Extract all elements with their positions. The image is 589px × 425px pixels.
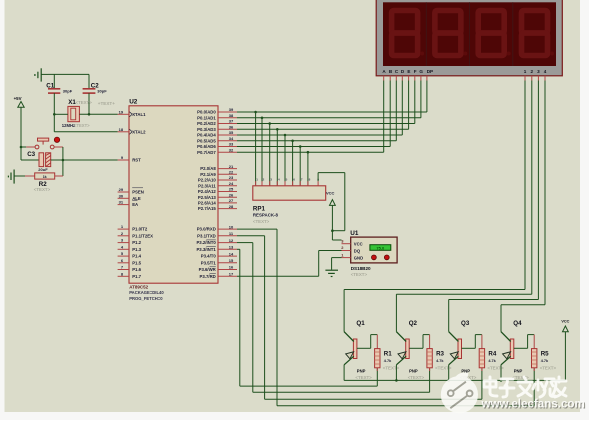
svg-text:17: 17	[229, 272, 234, 277]
svg-text:<TEXT>: <TEXT>	[74, 123, 90, 128]
U2 pin 36 (P0.3/AD3)	[197, 125, 237, 132]
wire display digit 1 to Q1 collector	[344, 81, 525, 332]
U2 pin 25 (P2.4/A12)	[198, 187, 237, 194]
svg-text:12: 12	[229, 238, 234, 243]
svg-text:PACKAGE=DIL40: PACKAGE=DIL40	[129, 290, 164, 295]
svg-text:VCC: VCC	[326, 190, 335, 195]
capacitor C1 30pF	[46, 74, 72, 93]
svg-text:3: 3	[537, 69, 540, 74]
U2 pin 8 (P1.7)	[118, 271, 142, 279]
svg-text:P0.5/AD5: P0.5/AD5	[197, 138, 216, 143]
svg-text:4.7k: 4.7k	[488, 359, 496, 363]
wire RP1 common to VCC and U1	[318, 173, 345, 240]
svg-text:35: 35	[229, 130, 234, 135]
svg-text:<TEXT>: <TEXT>	[76, 100, 93, 105]
svg-text:P2.1/A9: P2.1/A9	[200, 172, 216, 177]
U1 pin 2 DQ	[341, 245, 350, 250]
U2 pin 19 (XTAL1)	[118, 109, 146, 117]
svg-text:22: 22	[229, 170, 234, 175]
wire P3.3 to base resistor R1	[237, 249, 377, 386]
svg-text:P3.0/RXD: P3.0/RXD	[197, 227, 216, 232]
svg-text:13: 13	[229, 245, 234, 250]
transistor Q4 PNP	[501, 320, 529, 380]
svg-text:XTAL2: XTAL2	[132, 129, 146, 134]
svg-text:16: 16	[229, 265, 234, 270]
svg-text:28: 28	[229, 204, 234, 209]
svg-text:Q1: Q1	[356, 320, 365, 327]
wire P0.4 to RP1 pin 5	[284, 134, 287, 186]
transistor Q2 PNP	[396, 320, 424, 380]
svg-text:24: 24	[229, 181, 234, 186]
display label DP	[427, 69, 433, 74]
wire P3.1 to base resistor R4	[237, 236, 482, 399]
U2 pin 6 (P1.5)	[118, 258, 142, 266]
U2 pin 1 (P1.0/T2)	[118, 224, 148, 232]
resistor R2 1k	[25, 173, 63, 192]
wire U1 GND to ground	[332, 258, 342, 270]
svg-text:P0.6/AD6: P0.6/AD6	[197, 144, 216, 149]
svg-text:1k: 1k	[43, 175, 47, 179]
U2 pin 27 (P2.6/A14)	[198, 198, 237, 205]
svg-text:2: 2	[531, 69, 534, 74]
svg-text:P1.4: P1.4	[132, 254, 141, 259]
ground (crystal caps)	[35, 68, 48, 81]
display digit 2 (segments)	[435, 11, 468, 56]
svg-text:G: G	[419, 69, 423, 74]
U2 pin 37 (P0.2/AD2)	[197, 119, 237, 126]
power VCC symbol (transistors)	[561, 319, 569, 336]
svg-text:P2.0/A8: P2.0/A8	[200, 166, 216, 171]
U2 pin 21 (P2.0/A8)	[200, 164, 237, 171]
transistor Q3 PNP	[449, 320, 477, 380]
svg-text:14: 14	[229, 251, 234, 256]
U2 pin 28 (P2.7/A15)	[198, 204, 237, 211]
svg-text:P1.0/T2: P1.0/T2	[132, 227, 148, 232]
U2 pin 2 (P1.1/T2EX)	[118, 231, 154, 239]
svg-text:C1: C1	[46, 82, 54, 89]
svg-text:P2.7/A15: P2.7/A15	[198, 206, 217, 211]
svg-text:P0.3/AD3: P0.3/AD3	[197, 127, 216, 132]
svg-text:75.0: 75.0	[376, 246, 385, 251]
temperature sensor U1 DS18B20	[350, 230, 397, 277]
U1 pin 1 GND	[341, 252, 350, 257]
U2 pin 9 (RST)	[118, 155, 142, 163]
svg-text:PNP: PNP	[357, 368, 366, 373]
svg-text:4: 4	[544, 69, 547, 74]
svg-text:P1.3: P1.3	[132, 247, 141, 252]
wire Q2 base to R3	[409, 335, 429, 349]
emitter rail to VCC	[344, 336, 565, 382]
U2 pin 17 (P3.7/RD)	[200, 272, 237, 279]
text placeholder near X1	[76, 100, 116, 106]
U2 pin 35 (P0.4/AD4)	[197, 130, 237, 137]
svg-text:1: 1	[524, 69, 527, 74]
wire P3.0 to base resistor R5	[237, 229, 534, 406]
display digit 1 (segments)	[392, 11, 425, 56]
resistor R3 4.7k	[427, 349, 452, 371]
svg-text:Q4: Q4	[513, 320, 522, 327]
U2 pin 33 (P0.6/AD6)	[197, 142, 237, 149]
wire P3.2 to base resistor R3	[237, 243, 430, 393]
svg-text:RESPACK-8: RESPACK-8	[253, 213, 279, 218]
svg-text:P0.0/AD0: P0.0/AD0	[197, 110, 216, 115]
svg-text:AT89C52: AT89C52	[129, 285, 148, 290]
ground (reset resistor)	[8, 170, 25, 184]
U1 pin 3 VCC	[341, 238, 350, 243]
wire P0.5 to RP1 pin 6	[291, 140, 294, 186]
power +5V symbol	[14, 96, 25, 160]
push button (reset)	[26, 137, 63, 149]
svg-text:U1: U1	[350, 230, 359, 237]
svg-text:R4: R4	[488, 350, 496, 357]
display digit-select labels 1234	[524, 69, 547, 74]
U2 pin 22 (P2.1/A9)	[200, 170, 237, 177]
wire +5V to button	[20, 146, 27, 149]
ground (U1)	[325, 270, 338, 276]
power VCC symbol at RP1	[330, 200, 336, 240]
svg-text:<TEXT>: <TEXT>	[487, 365, 504, 370]
svg-text:P1.6: P1.6	[132, 267, 141, 272]
svg-text:VCC: VCC	[354, 242, 363, 247]
svg-text:10: 10	[229, 224, 234, 229]
wire P0.3 to RP1 pin 4	[276, 128, 279, 186]
svg-text:30: 30	[119, 193, 124, 198]
svg-text:37: 37	[229, 119, 234, 124]
svg-text:21: 21	[229, 164, 234, 169]
display pins (segment A-G, DP stubs)	[384, 76, 545, 81]
wire P0.4 to display segment C	[237, 81, 402, 136]
svg-text:23: 23	[229, 175, 234, 180]
svg-text:P1.7: P1.7	[132, 274, 141, 279]
svg-text:Q2: Q2	[409, 320, 418, 327]
svg-text:DS18B20: DS18B20	[351, 266, 371, 271]
svg-text:32: 32	[229, 147, 234, 152]
svg-text:RST: RST	[132, 158, 141, 163]
svg-text:P2.6/A14: P2.6/A14	[198, 201, 217, 206]
U2 pin 39 (P0.0/AD0)	[197, 107, 237, 114]
capacitor C2 30pF	[83, 74, 108, 93]
U2 pin 11 (P3.1/TXD)	[197, 231, 237, 238]
svg-text:<TEXT>: <TEXT>	[355, 375, 372, 380]
wire P0.0 to RP1 pin 1	[254, 111, 257, 186]
svg-text:R5: R5	[541, 350, 549, 357]
svg-text:P2.5/A13: P2.5/A13	[198, 195, 217, 200]
svg-text:P2.2/A10: P2.2/A10	[198, 178, 217, 183]
wire P0.3 to display segment D	[237, 81, 409, 130]
svg-text:4.7k: 4.7k	[436, 359, 444, 363]
svg-text:C3: C3	[27, 151, 35, 158]
microcontroller U2 AT89C52 body	[129, 99, 218, 284]
svg-text:EA: EA	[132, 202, 138, 207]
svg-text:18: 18	[119, 127, 124, 132]
resistor R1 4.7k	[375, 349, 400, 371]
wire P0.2 to display segment E	[237, 81, 415, 124]
svg-text:19: 19	[119, 109, 124, 114]
svg-text:<TEXT>: <TEXT>	[253, 219, 270, 224]
svg-text:www.elecfans.com: www.elecfans.com	[481, 398, 585, 411]
svg-text:38: 38	[229, 113, 234, 118]
wire C2 to XTAL1	[88, 93, 91, 116]
transistor Q1 PNP	[344, 320, 372, 380]
U2 pin 10 (P3.0/RXD)	[197, 224, 237, 231]
svg-text:15: 15	[229, 258, 234, 263]
svg-text:PROG_FETCH=0: PROG_FETCH=0	[129, 296, 163, 301]
svg-text:P1.2: P1.2	[132, 240, 141, 245]
U2 pin 5 (P1.4)	[118, 251, 142, 259]
U2 pin 18 (XTAL2)	[118, 127, 146, 135]
U2 pin 31 (EA)	[118, 200, 139, 208]
display digit 4 (segments)	[522, 11, 555, 56]
svg-text:39: 39	[229, 107, 234, 112]
svg-text:P0.7/AD7: P0.7/AD7	[197, 150, 216, 155]
U2 pin 16 (P3.6/WR)	[199, 265, 237, 272]
svg-text:<TEXT>: <TEXT>	[408, 375, 425, 380]
svg-text:U2: U2	[129, 99, 138, 106]
svg-text:P2.3/A11: P2.3/A11	[198, 183, 216, 188]
svg-text:<TEXT>: <TEXT>	[351, 272, 368, 277]
U2 pin 3 (P1.2)	[118, 238, 142, 246]
svg-text:VCC: VCC	[561, 319, 569, 323]
svg-text:26: 26	[229, 192, 234, 197]
watermark text elecfans	[481, 377, 586, 411]
svg-text:GND: GND	[354, 256, 363, 261]
svg-text:Q3: Q3	[461, 320, 470, 327]
U2 properties text	[129, 285, 164, 301]
wire P0.1 to display segment F	[237, 81, 421, 118]
wire display digit 2 to Q2 collector	[396, 81, 531, 332]
svg-text:4.7k: 4.7k	[384, 359, 392, 363]
svg-text:27: 27	[229, 198, 234, 203]
svg-text:25: 25	[229, 187, 234, 192]
wire P0.7 to display segment A	[237, 81, 384, 153]
svg-text:E: E	[407, 69, 410, 74]
wire ground rail to C1 C2	[48, 73, 89, 75]
wire Q1 base to R1	[357, 335, 377, 349]
svg-text:P0.2/AD2: P0.2/AD2	[197, 121, 216, 126]
U2 pin 4 (P1.3)	[118, 244, 142, 252]
svg-text:33: 33	[229, 142, 234, 147]
svg-text:P3.7/RD: P3.7/RD	[200, 274, 216, 279]
svg-text:<TEXT>: <TEXT>	[383, 365, 400, 370]
resistor pack RP1 RESPACK-8	[253, 178, 335, 225]
svg-text:4.7k: 4.7k	[541, 359, 549, 363]
U2 pin 13 (P3.3/INT1)	[196, 245, 237, 252]
U2 pin 24 (P2.3/A11)	[198, 181, 237, 188]
svg-text:R1: R1	[384, 350, 392, 357]
svg-text:P3.2/INT0: P3.2/INT0	[196, 240, 216, 245]
U2 pin 7 (P1.6)	[118, 265, 142, 273]
U2 pin 26 (P2.5/A13)	[198, 192, 237, 199]
svg-text:P2.4/A12: P2.4/A12	[198, 189, 217, 194]
wire P0.5 to display segment B	[237, 81, 396, 141]
svg-text:DQ: DQ	[354, 248, 361, 253]
svg-text:30pF: 30pF	[63, 88, 73, 93]
svg-text:<TEXT>: <TEXT>	[540, 365, 557, 370]
resistor R5 4.7k	[532, 349, 557, 371]
wire P0.0 to display segment G	[237, 81, 427, 113]
svg-text:XTAL1: XTAL1	[132, 112, 146, 117]
U2 pin 34 (P0.5/AD5)	[197, 136, 237, 143]
U2 pin 12 (P3.2/INT0)	[196, 238, 237, 245]
svg-text:36: 36	[229, 125, 234, 130]
U2 pin 32 (P0.7/AD7)	[197, 147, 237, 154]
U2 pin 29 (PSEN)	[118, 187, 144, 195]
capacitor C3 20uF	[21, 151, 63, 172]
U2 pin 38 (P0.1/AD1)	[197, 113, 237, 120]
display segment labels ABCDEFG	[382, 69, 423, 74]
svg-text:<TEXT>: <TEXT>	[435, 365, 452, 370]
resistor R4 4.7k	[479, 349, 504, 371]
wire P0.6 to RP1 pin 7	[299, 145, 302, 186]
U2 pin decorations (overlines, clock chevrons)	[129, 112, 215, 274]
svg-text:PNP: PNP	[514, 368, 523, 373]
svg-text:PNP: PNP	[409, 368, 418, 373]
watermark badge elecfans	[441, 372, 478, 413]
svg-text:R3: R3	[436, 350, 444, 357]
svg-text:P0.4/AD4: P0.4/AD4	[197, 133, 216, 138]
wire Q3 base to R4	[462, 335, 482, 349]
crystal X1 12MHz	[53, 99, 118, 128]
svg-text:RP1: RP1	[253, 205, 266, 212]
7-segment display 4-digit module	[376, 0, 562, 76]
wire U1 DQ to P3.7	[237, 251, 342, 277]
svg-text:P3.1/TXD: P3.1/TXD	[197, 233, 216, 238]
svg-text:P1.1/T2EX: P1.1/T2EX	[132, 233, 153, 238]
U2 pin 14 (P3.4/T0)	[201, 251, 237, 258]
svg-text:<TEXT>: <TEXT>	[34, 187, 51, 192]
svg-text:+5V: +5V	[14, 96, 22, 101]
svg-text:20uF: 20uF	[38, 167, 48, 172]
display digit 3 (segments)	[478, 11, 511, 56]
svg-text:P3.5/T1: P3.5/T1	[201, 260, 217, 265]
U2 pin 15 (P3.5/T1)	[201, 258, 237, 265]
svg-text:F: F	[414, 69, 417, 74]
svg-text:P1.5: P1.5	[132, 260, 141, 265]
wire Q4 base to R5	[514, 335, 534, 349]
svg-text:P3.6/WR: P3.6/WR	[199, 267, 217, 272]
wire button/C3 to RST	[62, 147, 118, 176]
svg-text:+TEXT+: +TEXT+	[98, 101, 115, 106]
svg-text:P3.3/INT1: P3.3/INT1	[196, 247, 216, 252]
wire P0.6 to display segment A	[237, 81, 390, 147]
svg-text:34: 34	[229, 136, 234, 141]
wire display digit 4 to Q4 collector	[501, 81, 545, 332]
wire C1 to XTAL2	[54, 93, 117, 132]
svg-text:P0.1/AD1: P0.1/AD1	[197, 115, 216, 120]
wire P0.7 to RP1 pin 8	[307, 151, 310, 186]
svg-text:PSEN: PSEN	[132, 190, 144, 195]
svg-text:30pF: 30pF	[97, 88, 107, 93]
wire P0.1 to RP1 pin 2	[261, 117, 264, 186]
wire P0.2 to RP1 pin 3	[268, 122, 271, 186]
svg-text:29: 29	[119, 187, 124, 192]
svg-text:DP: DP	[427, 69, 433, 74]
U2 pin 23 (P2.2/A10)	[198, 175, 237, 182]
svg-text:P3.4/T0: P3.4/T0	[201, 254, 217, 259]
U2 pin 30 (ALE)	[118, 193, 141, 201]
svg-text:31: 31	[119, 200, 124, 205]
wire display digit 3 to Q3 collector	[449, 81, 539, 332]
